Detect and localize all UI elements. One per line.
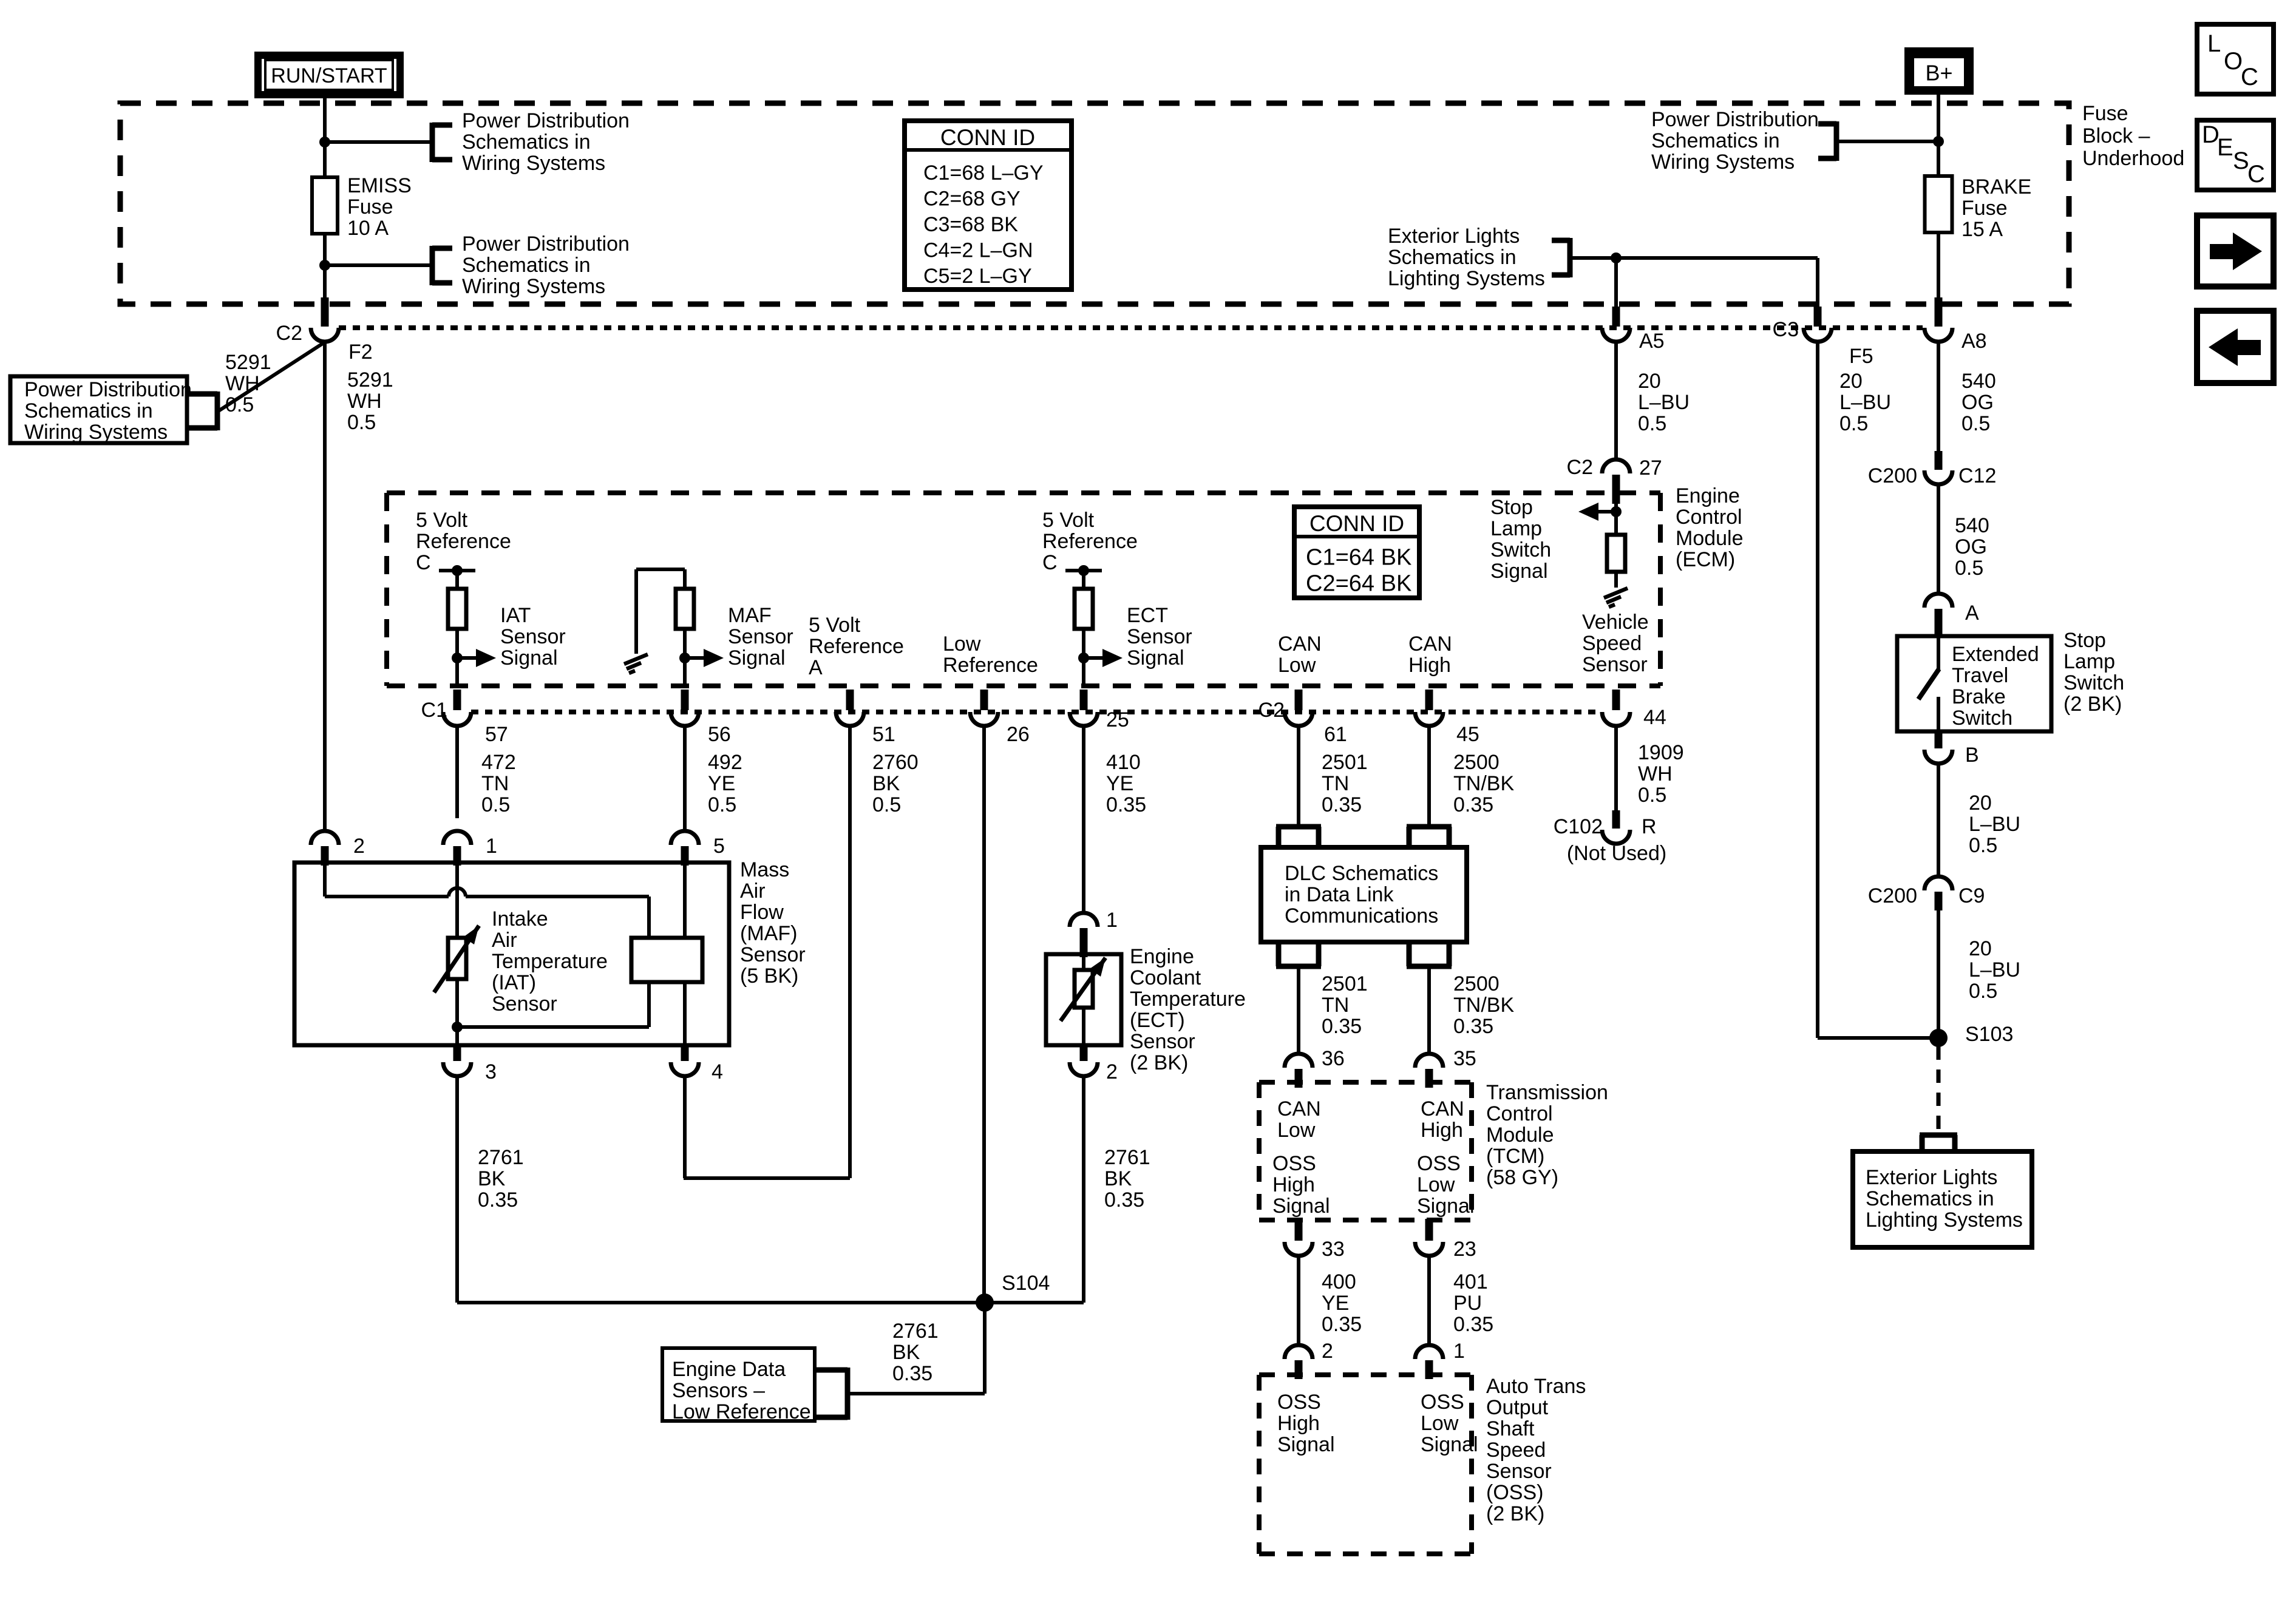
svg-text:Signal: Signal	[1272, 1195, 1330, 1218]
svg-text:0.35: 0.35	[1453, 793, 1493, 816]
svg-text:F2: F2	[348, 341, 373, 364]
svg-text:Schematics in: Schematics in	[1388, 246, 1517, 269]
svg-text:Air: Air	[740, 880, 766, 903]
svg-text:Coolant: Coolant	[1130, 966, 1201, 989]
svg-text:Sensor: Sensor	[1130, 1030, 1195, 1053]
svg-text:540: 540	[1955, 514, 1989, 537]
svg-text:1: 1	[1106, 909, 1118, 932]
svg-text:0.35: 0.35	[892, 1362, 932, 1385]
svg-text:Switch: Switch	[1490, 538, 1551, 561]
svg-text:A5: A5	[1639, 330, 1665, 353]
svg-text:61: 61	[1324, 723, 1347, 746]
svg-text:0.35: 0.35	[1322, 793, 1362, 816]
svg-text:Low: Low	[943, 632, 981, 656]
svg-text:(2 BK): (2 BK)	[2063, 693, 2122, 716]
svg-text:(OSS): (OSS)	[1486, 1481, 1543, 1504]
svg-text:IAT: IAT	[500, 604, 531, 627]
svg-text:(ECM): (ECM)	[1676, 548, 1735, 571]
svg-text:Schematics in: Schematics in	[24, 399, 153, 422]
svg-text:0.35: 0.35	[1322, 1313, 1362, 1336]
svg-text:Engine: Engine	[1676, 484, 1740, 507]
svg-text:Control: Control	[1486, 1102, 1553, 1125]
svg-text:Sensor: Sensor	[492, 992, 557, 1015]
svg-text:Extended: Extended	[1952, 643, 2039, 666]
svg-text:Signal: Signal	[728, 646, 786, 670]
svg-text:0.5: 0.5	[1969, 980, 1997, 1003]
svg-text:10 A: 10 A	[347, 217, 389, 240]
svg-text:C2=68 GY: C2=68 GY	[923, 187, 1021, 210]
svg-text:C: C	[2241, 64, 2258, 90]
svg-text:Sensor: Sensor	[728, 625, 793, 648]
svg-text:OSS: OSS	[1277, 1391, 1321, 1414]
svg-text:Lamp: Lamp	[2063, 650, 2115, 673]
svg-text:Wiring Systems: Wiring Systems	[24, 421, 168, 444]
svg-text:Stop: Stop	[1490, 496, 1533, 519]
svg-text:0.5: 0.5	[1638, 412, 1666, 435]
svg-text:(58 GY): (58 GY)	[1486, 1166, 1558, 1189]
svg-text:C: C	[416, 551, 431, 574]
svg-text:CAN: CAN	[1278, 632, 1322, 656]
svg-text:Schematics in: Schematics in	[462, 131, 591, 154]
svg-text:Engine Data: Engine Data	[672, 1358, 786, 1381]
svg-text:Module: Module	[1676, 527, 1744, 550]
svg-text:TN/BK: TN/BK	[1453, 994, 1514, 1017]
svg-text:C1=68 L–GY: C1=68 L–GY	[923, 161, 1044, 185]
svg-text:0.35: 0.35	[1322, 1015, 1362, 1038]
svg-text:C2: C2	[1258, 699, 1285, 722]
svg-text:(TCM): (TCM)	[1486, 1145, 1544, 1168]
svg-text:(ECT): (ECT)	[1130, 1009, 1185, 1032]
svg-text:S: S	[2233, 147, 2249, 174]
svg-text:(2 BK): (2 BK)	[1130, 1051, 1188, 1074]
svg-text:Control: Control	[1676, 506, 1742, 529]
svg-text:OSS: OSS	[1417, 1152, 1461, 1175]
svg-text:Power Distribution: Power Distribution	[462, 109, 630, 132]
svg-text:L–BU: L–BU	[1638, 391, 1690, 414]
svg-text:Wiring Systems: Wiring Systems	[462, 275, 605, 298]
svg-text:45: 45	[1456, 723, 1479, 746]
svg-text:(2 BK): (2 BK)	[1486, 1502, 1544, 1525]
svg-text:Schematics in: Schematics in	[1651, 129, 1780, 152]
svg-text:Signal: Signal	[1421, 1433, 1478, 1456]
svg-text:Schematics in: Schematics in	[462, 254, 591, 277]
svg-text:OG: OG	[1961, 391, 1994, 414]
svg-text:MAF: MAF	[728, 604, 772, 627]
svg-text:0.5: 0.5	[1969, 834, 1997, 857]
svg-text:Temperature: Temperature	[492, 950, 608, 973]
svg-text:Signal: Signal	[1277, 1433, 1335, 1456]
svg-text:2761: 2761	[1104, 1146, 1150, 1169]
svg-text:35: 35	[1453, 1047, 1476, 1070]
svg-text:Low: Low	[1277, 1119, 1316, 1142]
svg-text:OG: OG	[1955, 535, 1987, 558]
svg-text:Reference: Reference	[943, 654, 1038, 677]
svg-text:(Not Used): (Not Used)	[1567, 842, 1666, 865]
svg-text:(IAT): (IAT)	[492, 971, 536, 994]
svg-text:(5 BK): (5 BK)	[740, 964, 798, 988]
svg-text:0.5: 0.5	[708, 793, 736, 816]
svg-text:1909: 1909	[1638, 741, 1684, 764]
svg-text:Power Distribution: Power Distribution	[462, 232, 630, 256]
svg-text:540: 540	[1961, 370, 1996, 393]
svg-text:TN/BK: TN/BK	[1453, 772, 1514, 795]
svg-text:Sensor: Sensor	[1127, 625, 1192, 648]
svg-text:56: 56	[708, 723, 731, 746]
svg-text:C200: C200	[1868, 464, 1917, 487]
svg-text:B: B	[1965, 744, 1979, 767]
svg-text:TN: TN	[481, 772, 509, 795]
svg-text:2501: 2501	[1322, 972, 1368, 995]
svg-text:O: O	[2224, 48, 2243, 75]
svg-text:BK: BK	[892, 1341, 920, 1364]
svg-text:C5=2 L–GY: C5=2 L–GY	[923, 265, 1032, 288]
svg-text:C2: C2	[1567, 456, 1593, 479]
svg-text:5291: 5291	[347, 368, 393, 392]
svg-text:5 Volt: 5 Volt	[809, 614, 861, 637]
svg-text:Wiring Systems: Wiring Systems	[462, 152, 605, 175]
svg-text:BK: BK	[478, 1167, 506, 1190]
svg-text:1: 1	[1453, 1340, 1465, 1363]
svg-text:401: 401	[1453, 1270, 1488, 1293]
svg-text:Intake: Intake	[492, 907, 548, 931]
svg-text:20: 20	[1638, 370, 1661, 393]
svg-text:YE: YE	[1322, 1292, 1349, 1315]
svg-text:TN: TN	[1322, 994, 1349, 1017]
svg-text:C3: C3	[1773, 318, 1799, 341]
svg-text:15 A: 15 A	[1961, 218, 2003, 241]
svg-text:TN: TN	[1322, 772, 1349, 795]
svg-text:Exterior Lights: Exterior Lights	[1388, 225, 1520, 248]
svg-text:0.5: 0.5	[481, 793, 510, 816]
svg-text:0.5: 0.5	[225, 393, 254, 416]
svg-text:Shaft: Shaft	[1486, 1417, 1535, 1440]
svg-text:Schematics in: Schematics in	[1866, 1187, 1994, 1210]
svg-text:Engine: Engine	[1130, 945, 1194, 968]
svg-text:5: 5	[713, 835, 725, 858]
svg-text:(MAF): (MAF)	[740, 922, 797, 945]
svg-text:YE: YE	[1106, 772, 1133, 795]
svg-text:5291: 5291	[225, 351, 271, 374]
svg-text:S104: S104	[1002, 1272, 1050, 1295]
svg-text:0.5: 0.5	[872, 793, 901, 816]
svg-text:C9: C9	[1958, 884, 1985, 907]
svg-text:A8: A8	[1961, 330, 1987, 353]
svg-text:4: 4	[712, 1060, 723, 1083]
svg-text:C3=68 BK: C3=68 BK	[923, 213, 1018, 236]
svg-text:Transmission: Transmission	[1486, 1081, 1608, 1104]
svg-text:F5: F5	[1849, 345, 1873, 368]
svg-text:Reference: Reference	[1042, 530, 1138, 553]
svg-text:Module: Module	[1486, 1124, 1554, 1147]
svg-text:Brake: Brake	[1952, 685, 2006, 708]
svg-text:Lamp: Lamp	[1490, 517, 1542, 540]
svg-text:C: C	[1042, 551, 1058, 574]
svg-text:44: 44	[1643, 706, 1666, 729]
svg-text:CAN: CAN	[1277, 1097, 1321, 1120]
svg-text:2761: 2761	[478, 1146, 524, 1169]
svg-text:2: 2	[353, 835, 365, 858]
svg-text:RUN/START: RUN/START	[271, 64, 387, 87]
svg-text:L–BU: L–BU	[1839, 391, 1891, 414]
svg-text:Fuse: Fuse	[1961, 197, 2008, 220]
svg-text:DLC Schematics: DLC Schematics	[1285, 862, 1438, 885]
svg-text:0.5: 0.5	[347, 411, 376, 434]
svg-text:26: 26	[1007, 723, 1030, 746]
svg-text:2: 2	[1322, 1340, 1333, 1363]
svg-text:Communications: Communications	[1285, 904, 1438, 927]
svg-text:0.35: 0.35	[1453, 1015, 1493, 1038]
svg-text:472: 472	[481, 751, 516, 774]
svg-text:Block –: Block –	[2082, 124, 2150, 147]
svg-text:Sensor: Sensor	[1582, 653, 1648, 676]
svg-text:Reference: Reference	[416, 530, 511, 553]
svg-text:L–BU: L–BU	[1969, 813, 2020, 836]
svg-text:Lighting Systems: Lighting Systems	[1388, 267, 1545, 290]
svg-text:Speed: Speed	[1486, 1439, 1546, 1462]
svg-text:CONN ID: CONN ID	[940, 125, 1035, 150]
svg-text:2: 2	[1106, 1060, 1118, 1083]
svg-text:Exterior Lights: Exterior Lights	[1866, 1166, 1997, 1189]
svg-text:51: 51	[872, 723, 895, 746]
svg-text:PU: PU	[1453, 1292, 1482, 1315]
svg-text:23: 23	[1453, 1238, 1476, 1261]
svg-text:Fuse: Fuse	[2082, 102, 2128, 125]
svg-text:Stop: Stop	[2063, 629, 2106, 652]
svg-text:Switch: Switch	[1952, 707, 2012, 730]
svg-text:BK: BK	[872, 772, 900, 795]
svg-text:C1=64 BK: C1=64 BK	[1306, 545, 1411, 571]
svg-text:C12: C12	[1958, 464, 1996, 487]
svg-text:Fuse: Fuse	[347, 195, 393, 219]
svg-text:57: 57	[485, 723, 508, 746]
svg-text:WH: WH	[347, 390, 382, 413]
svg-text:Signal: Signal	[1417, 1195, 1475, 1218]
svg-text:S103: S103	[1965, 1023, 2013, 1046]
svg-text:CAN: CAN	[1421, 1097, 1464, 1120]
svg-text:Low: Low	[1278, 654, 1316, 677]
svg-text:WH: WH	[225, 372, 260, 395]
svg-text:Power Distribution: Power Distribution	[24, 378, 192, 401]
svg-text:C2=64 BK: C2=64 BK	[1306, 571, 1411, 597]
svg-text:OSS: OSS	[1272, 1152, 1316, 1175]
svg-text:High: High	[1421, 1119, 1463, 1142]
svg-text:0.5: 0.5	[1839, 412, 1868, 435]
svg-text:2760: 2760	[872, 751, 919, 774]
svg-text:Wiring Systems: Wiring Systems	[1651, 151, 1795, 174]
svg-text:20: 20	[1969, 937, 1992, 960]
svg-text:Air: Air	[492, 929, 517, 952]
svg-text:25: 25	[1106, 708, 1129, 731]
svg-text:Power Distribution: Power Distribution	[1651, 108, 1819, 131]
svg-text:EMISS: EMISS	[347, 174, 412, 197]
svg-text:20: 20	[1839, 370, 1863, 393]
svg-text:L: L	[2207, 30, 2221, 57]
svg-text:1: 1	[486, 835, 497, 858]
svg-text:Flow: Flow	[740, 901, 784, 924]
svg-text:27: 27	[1639, 456, 1662, 480]
svg-text:ECT: ECT	[1127, 604, 1168, 627]
svg-text:BRAKE: BRAKE	[1961, 175, 2031, 198]
svg-text:Auto Trans: Auto Trans	[1486, 1375, 1586, 1398]
svg-text:Sensors –: Sensors –	[672, 1379, 765, 1402]
svg-text:Underhood: Underhood	[2082, 147, 2184, 170]
svg-text:Reference: Reference	[809, 635, 904, 658]
svg-text:2500: 2500	[1453, 972, 1500, 995]
svg-text:0.5: 0.5	[1638, 784, 1666, 807]
svg-text:Mass: Mass	[740, 858, 789, 881]
svg-text:C2: C2	[276, 322, 302, 345]
svg-text:C1: C1	[421, 699, 447, 722]
svg-text:2501: 2501	[1322, 751, 1368, 774]
svg-text:Signal: Signal	[500, 646, 558, 670]
svg-text:Vehicle: Vehicle	[1582, 611, 1649, 634]
svg-text:0.35: 0.35	[1106, 793, 1146, 816]
svg-text:CONN ID: CONN ID	[1309, 511, 1404, 536]
svg-text:C4=2 L–GN: C4=2 L–GN	[923, 239, 1033, 262]
svg-text:0.35: 0.35	[478, 1188, 518, 1212]
svg-text:3: 3	[485, 1060, 497, 1083]
svg-text:Signal: Signal	[1127, 646, 1184, 670]
svg-text:20: 20	[1969, 792, 1992, 815]
svg-text:R: R	[1642, 815, 1657, 838]
svg-text:in Data Link: in Data Link	[1285, 883, 1394, 906]
svg-text:C102: C102	[1554, 815, 1603, 838]
svg-text:WH: WH	[1638, 762, 1673, 785]
svg-text:YE: YE	[708, 772, 735, 795]
svg-text:5 Volt: 5 Volt	[1042, 509, 1095, 532]
svg-text:0.5: 0.5	[1961, 412, 1990, 435]
svg-text:36: 36	[1322, 1047, 1345, 1070]
svg-text:Speed: Speed	[1582, 632, 1642, 655]
svg-text:492: 492	[708, 751, 742, 774]
svg-text:A: A	[809, 656, 823, 679]
svg-text:C: C	[2247, 161, 2265, 188]
svg-text:C200: C200	[1868, 884, 1917, 907]
svg-text:Sensor: Sensor	[740, 943, 806, 966]
svg-text:2500: 2500	[1453, 751, 1500, 774]
svg-text:Travel: Travel	[1952, 664, 2008, 687]
svg-text:0.35: 0.35	[1453, 1313, 1493, 1336]
svg-text:Sensor: Sensor	[500, 625, 566, 648]
svg-text:5 Volt: 5 Volt	[416, 509, 468, 532]
svg-text:Low Reference: Low Reference	[672, 1400, 811, 1423]
svg-text:33: 33	[1322, 1238, 1345, 1261]
svg-text:410: 410	[1106, 751, 1141, 774]
svg-text:Low: Low	[1421, 1412, 1459, 1435]
svg-text:Lighting Systems: Lighting Systems	[1866, 1209, 2023, 1232]
svg-text:Low: Low	[1417, 1173, 1455, 1196]
svg-text:2761: 2761	[892, 1320, 939, 1343]
svg-text:Output: Output	[1486, 1396, 1549, 1419]
svg-text:0.35: 0.35	[1104, 1188, 1144, 1212]
svg-text:Temperature: Temperature	[1130, 988, 1246, 1011]
svg-text:CAN: CAN	[1408, 632, 1452, 656]
svg-text:400: 400	[1322, 1270, 1356, 1293]
svg-text:Sensor: Sensor	[1486, 1460, 1552, 1483]
svg-text:B+: B+	[1925, 60, 1952, 85]
svg-text:0.5: 0.5	[1955, 557, 1983, 580]
svg-text:A: A	[1965, 602, 1979, 625]
svg-text:High: High	[1272, 1173, 1315, 1196]
svg-text:High: High	[1408, 654, 1451, 677]
svg-text:E: E	[2217, 134, 2233, 161]
svg-text:High: High	[1277, 1412, 1320, 1435]
svg-text:L–BU: L–BU	[1969, 958, 2020, 981]
svg-text:Signal: Signal	[1490, 560, 1548, 583]
svg-text:OSS: OSS	[1421, 1391, 1464, 1414]
svg-text:BK: BK	[1104, 1167, 1132, 1190]
svg-text:Switch: Switch	[2063, 671, 2124, 694]
